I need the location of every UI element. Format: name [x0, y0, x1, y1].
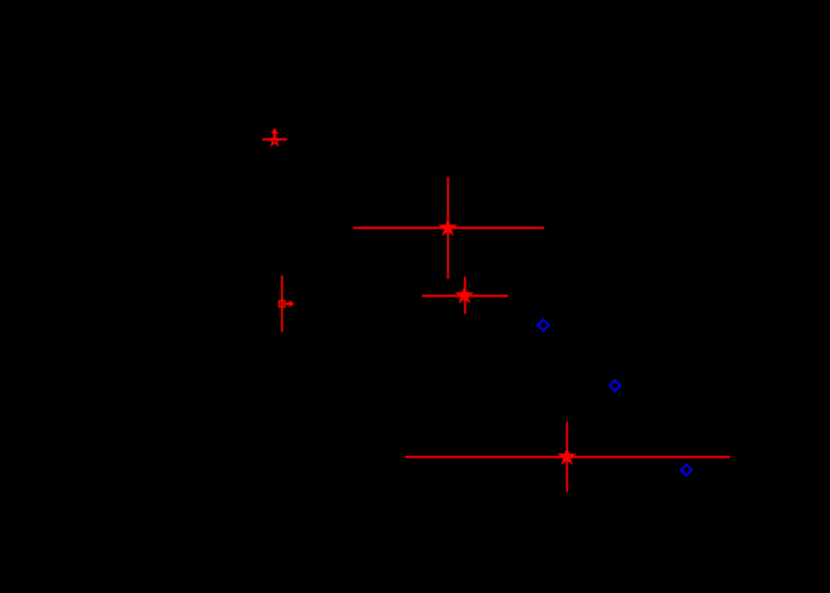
point 2: big filled star with cross error bars — [353, 177, 544, 279]
point 4: open square with vertical error bar and right arrow — [279, 276, 285, 332]
point 5: filled star with wide cross error bars — [405, 422, 730, 492]
point 3: filled star with cross error bars — [422, 277, 508, 314]
point 1: open star with upper-limit arrow — [262, 135, 287, 145]
diamond 2 — [610, 380, 621, 391]
diamond 3 — [681, 465, 692, 476]
diamond 1 — [538, 320, 549, 331]
